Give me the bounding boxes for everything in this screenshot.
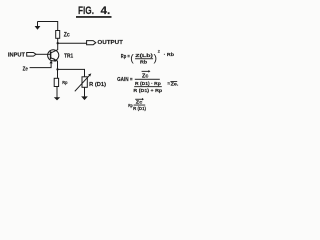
svg-text:TR1: TR1 [64,54,73,60]
svg-text:· Rb: · Rb [164,52,175,57]
svg-text:R (D1): R (D1) [89,82,106,88]
svg-text:2: 2 [158,50,160,54]
svg-text:Zc: Zc [64,32,70,39]
svg-text:): ) [154,53,158,65]
svg-text:(: ( [130,53,134,65]
svg-text:OUTPUT: OUTPUT [97,40,123,46]
svg-text:Zc: Zc [136,100,143,105]
svg-text:Rp: Rp [62,80,67,86]
svg-text:Rb: Rb [140,59,147,64]
svg-text:4.: 4. [101,5,111,17]
svg-text:Zc: Zc [142,74,149,80]
svg-text:Z(Lb): Z(Lb) [135,53,153,58]
svg-text:INPUT: INPUT [8,53,25,59]
svg-text:R (D1) · Rp: R (D1) · Rp [135,81,161,86]
svg-text:Rp =: Rp = [121,54,130,60]
svg-text:FIG.: FIG. [78,5,94,17]
svg-text:Ze.: Ze. [171,82,179,88]
svg-text:GAIN =: GAIN = [117,77,132,83]
svg-text:Ze: Ze [23,67,28,73]
svg-text:R (D1): R (D1) [133,106,146,111]
svg-text:R (D1) + Rp: R (D1) + Rp [133,88,162,93]
